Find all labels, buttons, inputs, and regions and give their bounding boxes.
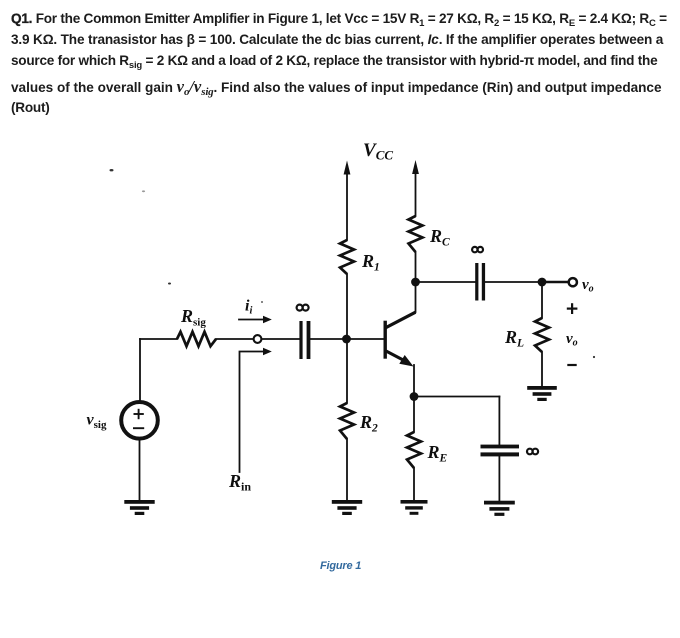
svg-text:vsig: vsig [87,412,107,432]
svg-text:ii: ii [245,298,252,317]
svg-text:Rsig: Rsig [180,306,206,329]
svg-text:R1: R1 [361,251,380,274]
svg-text:RE: RE [427,442,448,465]
svg-text:VCC: VCC [363,140,393,163]
svg-text:RL: RL [504,327,524,350]
svg-text:vo: vo [582,277,594,295]
svg-text:R2: R2 [359,412,378,435]
svg-text:RC: RC [429,226,450,249]
svg-text:Rin: Rin [228,471,251,494]
svg-text:vo: vo [566,331,578,349]
